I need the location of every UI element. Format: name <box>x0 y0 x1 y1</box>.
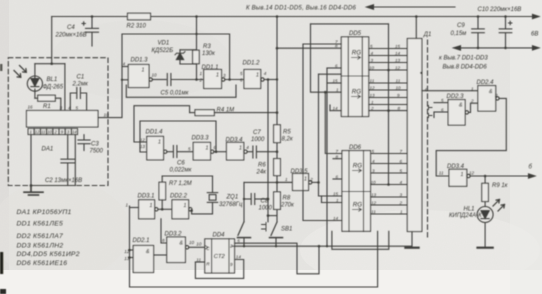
svg-text:7: 7 <box>400 149 403 154</box>
gate DD2.3 <box>434 100 478 126</box>
photodiode BL1 <box>14 66 43 92</box>
LED HL1 <box>477 200 504 223</box>
svg-text:1: 1 <box>256 73 259 79</box>
gate DD2.1 <box>130 246 167 273</box>
svg-text:14: 14 <box>333 216 339 221</box>
svg-text:15: 15 <box>395 44 401 49</box>
gate DD3.5 <box>277 174 320 191</box>
wire monostable outer loop with resistor R4 <box>134 106 277 142</box>
svg-text:DD2 К561ЛА7: DD2 К561ЛА7 <box>17 233 64 240</box>
wire top supply rail <box>52 14 539 18</box>
gate symbols <box>142 68 494 256</box>
svg-text:4: 4 <box>68 106 71 111</box>
resistor R5 <box>274 125 281 143</box>
svg-text:2: 2 <box>399 201 403 206</box>
svg-text:1: 1 <box>336 198 339 203</box>
gate DD3.4 <box>227 142 253 160</box>
svg-text:3: 3 <box>371 58 374 63</box>
svg-text:11: 11 <box>41 130 45 135</box>
svg-text:4: 4 <box>123 62 126 67</box>
svg-text:15: 15 <box>333 79 339 84</box>
svg-text:1: 1 <box>461 172 464 178</box>
svg-text:Выв.8 DD4-DD6: Выв.8 DD4-DD6 <box>443 64 488 70</box>
wire A1 to DD2.4 <box>422 90 478 92</box>
svg-text:DD4,DD5 К561ИР2: DD4,DD5 К561ИР2 <box>17 251 80 258</box>
wire common rail выв.7/8 <box>454 46 540 50</box>
svg-text:С10 220мк×16В: С10 220мк×16В <box>478 7 522 13</box>
svg-text:1: 1 <box>184 203 187 209</box>
wire serial data verticals <box>303 44 342 221</box>
node rail junctions <box>195 15 507 18</box>
RG arrows and clock marks <box>205 56 362 250</box>
svg-text:8: 8 <box>336 154 339 159</box>
svg-text:DD3.2: DD3.2 <box>165 232 183 238</box>
svg-text:10: 10 <box>152 73 158 78</box>
capacitor C6 <box>173 146 193 158</box>
wire DA1 output pin10 <box>98 34 128 118</box>
svg-text:4: 4 <box>400 180 403 185</box>
wire DD6 output bundle upper <box>371 154 407 185</box>
svg-text:к Выв.7 DD1-DD3: к Выв.7 DD1-DD3 <box>439 56 488 62</box>
svg-text:DD2.1: DD2.1 <box>133 238 150 244</box>
gate DD3.2 <box>161 219 205 263</box>
svg-text:4: 4 <box>371 51 374 56</box>
wire top feedback arrow к выв.14 <box>367 5 456 9</box>
svg-text:130к: 130к <box>202 51 216 57</box>
svg-text:12: 12 <box>35 130 40 135</box>
vertical net from DD1.2 output <box>267 80 270 222</box>
boundary dashed line <box>427 40 429 237</box>
svg-text:DD6: DD6 <box>349 145 362 151</box>
svg-text:С8: С8 <box>261 199 269 205</box>
svg-text:14: 14 <box>72 130 77 135</box>
gate DD2.4 <box>436 86 506 176</box>
svg-text:1: 1 <box>30 130 32 135</box>
svg-text:24к: 24к <box>256 170 268 176</box>
svg-text:2: 2 <box>370 106 374 111</box>
svg-text:1: 1 <box>142 68 145 74</box>
svg-text:10: 10 <box>369 65 375 70</box>
gate DD3.4 inverter <box>449 169 535 186</box>
svg-text:5: 5 <box>441 98 444 103</box>
svg-text:ФД-265: ФД-265 <box>43 85 64 91</box>
svg-text:КД522Б: КД522Б <box>152 48 174 54</box>
svg-text:R3: R3 <box>203 44 211 50</box>
svg-text:R6: R6 <box>258 163 266 169</box>
svg-text:5: 5 <box>240 71 243 76</box>
svg-text:6: 6 <box>214 145 217 150</box>
svg-text:1: 1 <box>126 203 129 208</box>
svg-text:32768Гц: 32768Гц <box>219 202 243 208</box>
svg-text:1: 1 <box>239 146 242 152</box>
capacitor C7 <box>253 146 277 158</box>
svg-text:DD3.4: DD3.4 <box>447 164 465 170</box>
capacitor C3 <box>78 135 90 151</box>
svg-text:DD1.1: DD1.1 <box>202 65 219 71</box>
svg-text:RG: RG <box>352 50 361 57</box>
svg-text:С4: С4 <box>67 25 75 31</box>
svg-text:6: 6 <box>400 159 403 164</box>
svg-text:4: 4 <box>372 159 375 164</box>
svg-text:С1: С1 <box>77 75 85 81</box>
svg-text:R9 1к: R9 1к <box>492 183 509 189</box>
svg-text:1: 1 <box>371 100 374 105</box>
ground A1 <box>405 232 418 248</box>
svg-text:2: 2 <box>229 243 233 248</box>
wire to DD3.5 with C8 branch <box>244 182 293 221</box>
svg-text:12: 12 <box>395 65 401 70</box>
scan artifacts <box>0 64 6 294</box>
svg-text:14: 14 <box>236 254 242 259</box>
wire gate row lower tie <box>126 85 236 97</box>
vertical supply divider chain <box>276 17 279 223</box>
resistor R2 <box>128 13 151 20</box>
resistor R9 <box>482 176 489 207</box>
svg-text:1: 1 <box>400 210 403 215</box>
svg-text:DD2.4: DD2.4 <box>477 80 495 86</box>
oscillator gate DD3.1 <box>139 200 172 219</box>
svg-text:1: 1 <box>304 177 307 183</box>
svg-text:3: 3 <box>223 73 226 78</box>
svg-text:RG: RG <box>352 89 361 96</box>
svg-text:4: 4 <box>246 145 249 150</box>
svg-text:0,022мк: 0,022мк <box>170 168 193 174</box>
svg-text:DD3.5: DD3.5 <box>291 169 309 175</box>
svg-text:R4 1М: R4 1М <box>217 107 235 113</box>
gate DD3.3 <box>193 142 226 160</box>
svg-text:8,2к: 8,2к <box>282 137 294 143</box>
svg-text:4: 4 <box>425 87 428 92</box>
svg-text:С2 13мк×16В: С2 13мк×16В <box>45 178 82 184</box>
resistor R8 <box>268 192 280 216</box>
svg-text:10: 10 <box>47 130 52 135</box>
wire feedback box top DD1 <box>122 33 231 81</box>
svg-text:11: 11 <box>439 170 444 175</box>
svg-text:10: 10 <box>196 241 202 246</box>
svg-text:SB1: SB1 <box>281 227 292 233</box>
gate DD1.3 <box>128 65 166 88</box>
svg-text:DD3.1: DD3.1 <box>138 194 155 200</box>
svg-text:DD6 К561ИЕ16: DD6 К561ИЕ16 <box>17 260 68 267</box>
svg-text:10: 10 <box>104 113 110 118</box>
svg-text:1: 1 <box>158 140 161 146</box>
gate DD1.2 <box>244 70 278 89</box>
svg-text:5: 5 <box>188 147 191 152</box>
svg-text:1: 1 <box>150 203 153 209</box>
svg-text:DA1 КР1056УП1: DA1 КР1056УП1 <box>17 209 72 216</box>
block A1 <box>407 17 422 232</box>
svg-text:15: 15 <box>333 192 339 197</box>
capacitor C10 <box>499 17 512 48</box>
svg-text:&: & <box>146 249 150 255</box>
wire DD6 output bundle lower <box>371 197 407 214</box>
svg-text:1: 1 <box>285 177 288 182</box>
svg-text:6В: 6В <box>531 32 538 38</box>
capacitor C9 <box>472 17 485 48</box>
svg-text:3: 3 <box>495 93 498 98</box>
svg-text:8: 8 <box>162 238 165 243</box>
svg-text:12: 12 <box>140 137 146 142</box>
svg-text:13: 13 <box>124 256 130 261</box>
register DD5 <box>341 37 368 117</box>
svg-text:12: 12 <box>124 249 130 254</box>
wire monostable inner loop <box>140 121 217 153</box>
svg-text:9: 9 <box>230 262 233 267</box>
svg-text:12: 12 <box>370 85 376 90</box>
gate DD1.4 <box>147 136 173 160</box>
svg-text:12: 12 <box>469 170 475 175</box>
switch link mark <box>262 223 267 232</box>
switch SB1 contact a <box>238 222 251 246</box>
svg-text:R5: R5 <box>283 130 291 136</box>
svg-text:DD1.2: DD1.2 <box>243 61 261 67</box>
svg-text:6: 6 <box>441 107 444 112</box>
svg-text:7: 7 <box>336 149 339 154</box>
svg-text:CT2: CT2 <box>214 254 226 260</box>
svg-text:5: 5 <box>400 169 403 174</box>
svg-text:6: 6 <box>240 78 243 83</box>
svg-text:DD3.4: DD3.4 <box>226 137 244 143</box>
svg-text:10: 10 <box>189 240 195 245</box>
wire DD4 R loop <box>195 260 243 279</box>
svg-text:2: 2 <box>470 99 474 104</box>
DA1 pin boxes <box>28 128 78 134</box>
svg-text:8: 8 <box>398 106 401 111</box>
capacitor C4 <box>82 15 99 46</box>
svg-text:BL1: BL1 <box>47 77 58 83</box>
svg-text:VD1: VD1 <box>158 41 170 47</box>
wire cascade top loop <box>311 24 390 186</box>
svg-text:DD4: DD4 <box>213 233 226 239</box>
capacitor C1 <box>70 88 86 111</box>
svg-text:11: 11 <box>370 78 375 83</box>
svg-text:11: 11 <box>396 78 401 83</box>
svg-text:12: 12 <box>371 201 377 206</box>
svg-text:С7: С7 <box>253 130 261 136</box>
svg-text:13: 13 <box>371 193 377 198</box>
gate DD1.1 <box>204 70 244 89</box>
resistor R7 <box>159 176 166 209</box>
ground sensor <box>24 186 43 196</box>
svg-text:1: 1 <box>336 88 339 93</box>
svg-text:4: 4 <box>264 71 267 76</box>
svg-text:К Выв.14 DD1-DD5, Выв.16 DD4-D: К Выв.14 DD1-DD5, Выв.16 DD4-DD6 <box>246 6 357 12</box>
svg-text:6: 6 <box>336 175 339 180</box>
switch SB1 contact b <box>270 222 283 246</box>
resistor R6 <box>274 159 281 176</box>
svg-text:6: 6 <box>335 64 338 69</box>
svg-text:2,2мк: 2,2мк <box>72 82 89 88</box>
IC DA1 <box>27 111 99 128</box>
svg-text:DD1 К561ЛЕ5: DD1 К561ЛЕ5 <box>17 221 64 228</box>
svg-text:3: 3 <box>400 193 403 198</box>
capacitor C8 <box>243 194 268 205</box>
wire supply to sensor box <box>51 17 53 64</box>
svg-text:С3: С3 <box>91 142 99 148</box>
svg-text:RG: RG <box>353 163 362 170</box>
svg-text:1: 1 <box>216 73 219 79</box>
svg-text:1: 1 <box>206 146 209 152</box>
register DD6 <box>342 151 371 232</box>
svg-text:5: 5 <box>372 149 375 154</box>
crystal ZQ1 <box>162 176 218 214</box>
svg-text:R7 1,2М: R7 1,2М <box>169 181 192 187</box>
svg-text:220мк×16В: 220мк×16В <box>55 33 87 39</box>
sensor unit dashed box <box>8 58 108 186</box>
svg-text:13: 13 <box>370 93 376 98</box>
svg-text:&: & <box>489 89 493 95</box>
svg-text:11: 11 <box>196 257 201 262</box>
svg-text:R2 310: R2 310 <box>127 24 147 30</box>
capacitor C5 <box>167 74 203 86</box>
svg-text:8: 8 <box>335 44 338 49</box>
wire DD5 output bundle lower <box>369 83 407 111</box>
svg-text:1000: 1000 <box>259 206 273 212</box>
svg-text:14: 14 <box>333 106 339 111</box>
ground HL1 <box>478 223 493 248</box>
svg-text:5: 5 <box>370 44 373 49</box>
resistor R1 <box>35 91 61 110</box>
svg-text:R1: R1 <box>43 104 51 110</box>
svg-text:С9: С9 <box>457 23 465 29</box>
svg-text:16: 16 <box>28 105 34 110</box>
svg-text:DD3 К561ЛН2: DD3 К561ЛН2 <box>17 243 64 250</box>
svg-text:DD5: DD5 <box>349 31 362 37</box>
svg-text:С5 0,01мк: С5 0,01мк <box>161 91 190 97</box>
svg-text:DD2.3: DD2.3 <box>447 94 465 100</box>
wire DD3.1 input / bottom feedback <box>128 206 377 287</box>
svg-text:DD3.3: DD3.3 <box>192 136 210 142</box>
svg-text:1: 1 <box>471 87 474 92</box>
diode VD1 and resistor R3 <box>175 17 199 81</box>
svg-text:7500: 7500 <box>90 149 104 155</box>
svg-text:13: 13 <box>140 144 146 149</box>
wire sensor supply loop <box>35 62 65 110</box>
oscillator gate DD2.2 <box>172 200 192 219</box>
svg-text:DD1.3: DD1.3 <box>131 58 149 64</box>
svg-text:Д1: Д1 <box>423 32 432 38</box>
svg-text:R8: R8 <box>283 196 291 202</box>
svg-text:270к: 270к <box>280 203 295 209</box>
svg-text:11: 11 <box>371 210 376 215</box>
svg-text:13: 13 <box>395 58 401 63</box>
wire DD5 output bundle upper <box>369 49 407 71</box>
svg-text:HL1: HL1 <box>464 207 475 213</box>
capacitor C2 <box>61 135 75 186</box>
svg-text:1: 1 <box>200 71 203 76</box>
svg-text:DD2.2: DD2.2 <box>170 194 188 200</box>
svg-text:5: 5 <box>237 239 240 244</box>
svg-text:С6: С6 <box>177 161 185 167</box>
svg-text:10: 10 <box>396 85 402 90</box>
svg-text:&: & <box>180 241 184 247</box>
svg-text:DA1: DA1 <box>42 147 54 153</box>
wire common bottom rail <box>232 245 412 247</box>
wire DA1 ground leads <box>30 135 76 187</box>
svg-text:ZQ1: ZQ1 <box>226 195 239 201</box>
svg-text:&: & <box>459 103 463 109</box>
tick marks DD2.3 inputs <box>429 106 433 118</box>
svg-text:3: 3 <box>372 169 375 174</box>
svg-text:RG: RG <box>353 202 362 209</box>
svg-text:DD1.4: DD1.4 <box>146 130 164 136</box>
svg-text:1000: 1000 <box>251 137 265 143</box>
svg-text:14: 14 <box>395 51 401 56</box>
counter DD4 <box>205 239 235 273</box>
svg-text:3: 3 <box>60 106 63 111</box>
svg-text:2: 2 <box>199 78 203 83</box>
svg-text:9: 9 <box>397 93 400 98</box>
svg-text:2: 2 <box>309 177 313 182</box>
svg-text:КИПД24А-К: КИПД24А-К <box>449 213 482 219</box>
wire oscillator enable <box>277 47 341 49</box>
svg-text:5: 5 <box>76 106 79 111</box>
svg-text:0,15м: 0,15м <box>451 31 467 37</box>
wire DD6 bottom loop <box>332 231 389 249</box>
svg-text:10: 10 <box>371 180 377 185</box>
wire DD4 output <box>235 243 321 274</box>
